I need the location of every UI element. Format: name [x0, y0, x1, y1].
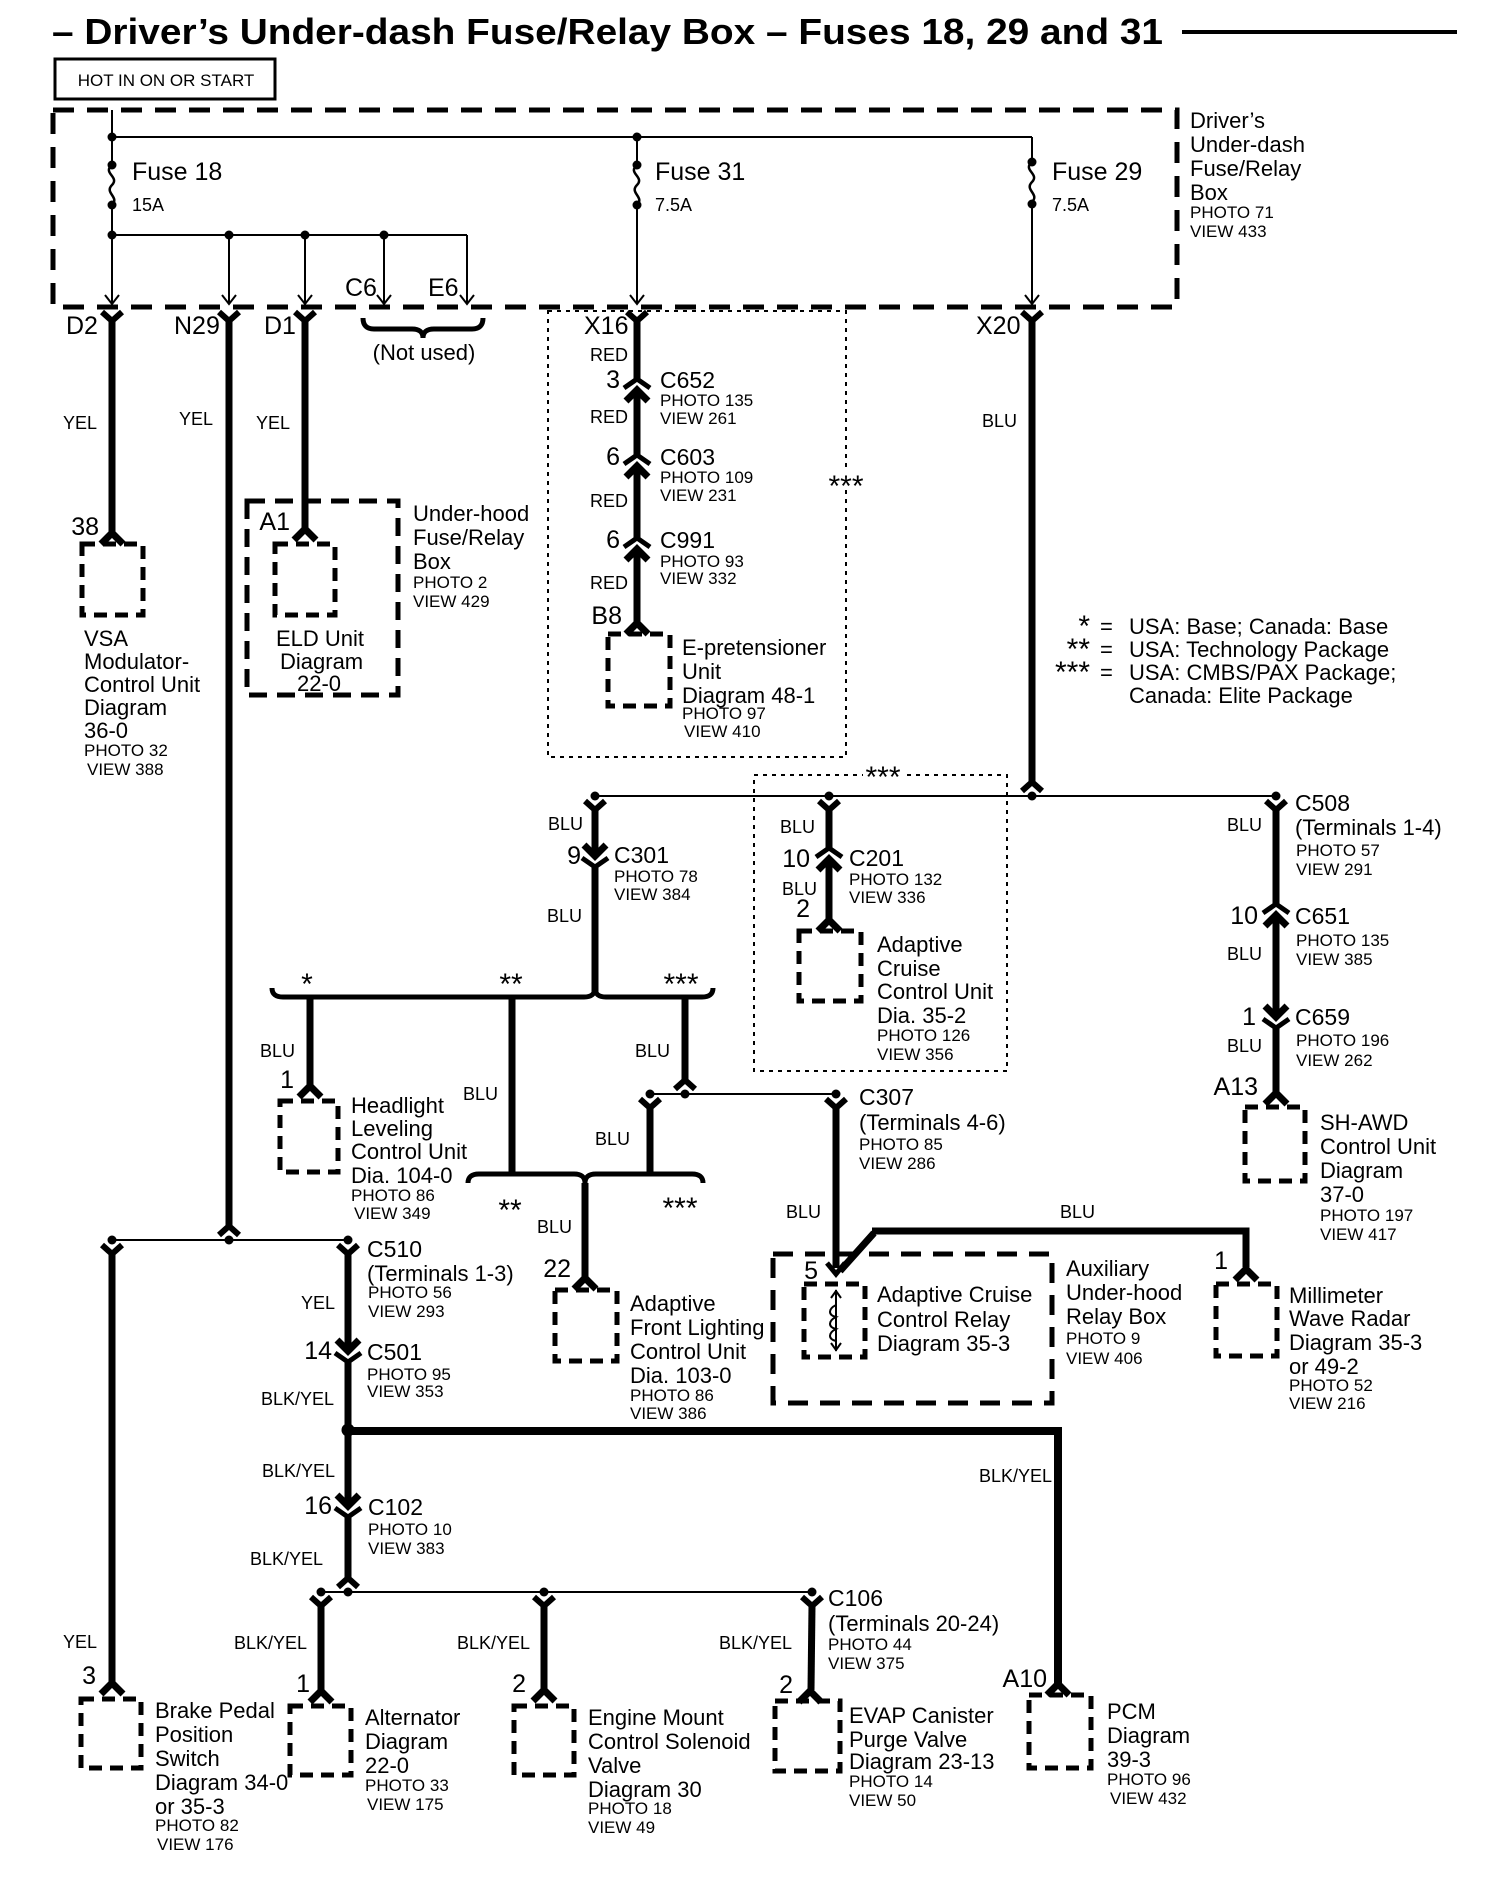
- svg-text:=: =: [1100, 660, 1113, 685]
- svg-text:PHOTO 14: PHOTO 14: [849, 1772, 933, 1791]
- wire: RED segment 3: [634, 466, 641, 538]
- svg-text:USA: CMBS/PAX Package;: USA: CMBS/PAX Package;: [1129, 660, 1396, 685]
- wire: RED segment 2: [634, 390, 641, 455]
- wire: BLU CMBS branch: [682, 997, 689, 1080]
- svg-text:EVAP Canister: EVAP Canister: [849, 1703, 994, 1728]
- label *** on option box edge: [863, 766, 903, 784]
- svg-text:2: 2: [779, 1671, 793, 1699]
- wire: RED segment 4: [634, 549, 641, 622]
- svg-text:Modulator-: Modulator-: [84, 649, 189, 674]
- svg-text:Relay Box: Relay Box: [1066, 1304, 1166, 1329]
- svg-text:VIEW 385: VIEW 385: [1296, 950, 1373, 969]
- svg-text:HOT IN ON OR START: HOT IN ON OR START: [78, 71, 255, 90]
- svg-text:A10: A10: [1003, 1665, 1047, 1693]
- wire: main BLU bus y=796: [595, 795, 1276, 797]
- svg-text:Under-hood: Under-hood: [1066, 1280, 1182, 1305]
- svg-text:***: ***: [662, 1192, 697, 1225]
- Under-hood Fuse/Relay Box (dashed outer): [247, 501, 398, 695]
- E-pretensioner Unit box: [608, 634, 670, 706]
- svg-text:PHOTO 44: PHOTO 44: [828, 1635, 912, 1654]
- Adaptive Cruise Control Relay box: [804, 1284, 865, 1357]
- svg-text:Under-dash: Under-dash: [1190, 132, 1305, 157]
- svg-text:Diagram: Diagram: [1320, 1158, 1403, 1183]
- connector C501: [335, 1340, 361, 1362]
- svg-text:PHOTO 96: PHOTO 96: [1107, 1770, 1191, 1789]
- svg-text:PHOTO 82: PHOTO 82: [155, 1816, 239, 1835]
- svg-text:A1: A1: [259, 508, 290, 536]
- svg-text:VIEW 175: VIEW 175: [367, 1795, 444, 1814]
- svg-text:PHOTO 135: PHOTO 135: [1296, 931, 1389, 950]
- svg-text:BLK/YEL: BLK/YEL: [261, 1389, 334, 1409]
- svg-text:YEL: YEL: [179, 409, 213, 429]
- svg-text:C508: C508: [1295, 790, 1350, 816]
- svg-text:Fuse/Relay: Fuse/Relay: [1190, 156, 1301, 181]
- svg-text:BLU: BLU: [260, 1041, 295, 1061]
- connector: radar terminal: [1235, 1269, 1257, 1280]
- svg-text:22-0: 22-0: [365, 1753, 409, 1778]
- svg-text:Diagram 35-3: Diagram 35-3: [877, 1331, 1010, 1356]
- node: junction at fuse 18 feed: [108, 133, 117, 142]
- svg-text:VIEW 336: VIEW 336: [849, 888, 926, 907]
- connector: alternator terminal: [310, 1691, 332, 1702]
- svg-text:Control Relay: Control Relay: [877, 1307, 1010, 1332]
- connector: SH-AWD terminal: [1265, 1093, 1287, 1104]
- svg-text:Control Solenoid: Control Solenoid: [588, 1729, 751, 1754]
- dotted option box: C201/ACC region: [754, 775, 1007, 1071]
- svg-text:X20: X20: [976, 312, 1020, 340]
- PCM box: [1029, 1695, 1091, 1768]
- connector: N29 socket: [219, 312, 239, 321]
- svg-text:Brake Pedal: Brake Pedal: [155, 1698, 275, 1723]
- svg-text:PHOTO 2: PHOTO 2: [413, 573, 487, 592]
- svg-text:PCM: PCM: [1107, 1699, 1156, 1724]
- wire: YEL to brake pedal switch: [109, 1254, 116, 1682]
- wire: BLU to AFL unit: [582, 1183, 589, 1278]
- svg-text:Diagram: Diagram: [84, 695, 167, 720]
- connector: X16 socket: [627, 312, 647, 321]
- svg-text:7.5A: 7.5A: [655, 195, 692, 215]
- svg-text:VSA: VSA: [84, 626, 128, 651]
- Adaptive Cruise Control Unit box: [799, 931, 861, 1001]
- wire: BLU technology branch: [509, 997, 516, 1173]
- svg-text:D2: D2: [66, 312, 98, 340]
- svg-text:YEL: YEL: [256, 413, 290, 433]
- svg-text:(Terminals 4-6): (Terminals 4-6): [859, 1110, 1006, 1135]
- HOT IN ON OR START label box: [55, 59, 275, 99]
- svg-text:RED: RED: [590, 407, 628, 427]
- wire: BLK/YEL C102 down: [345, 1517, 352, 1578]
- wire: drop to E6 with arrow: [466, 235, 468, 303]
- svg-text:BLU: BLU: [780, 817, 815, 837]
- svg-text:BLK/YEL: BLK/YEL: [234, 1633, 307, 1653]
- svg-text:VIEW 433: VIEW 433: [1190, 222, 1267, 241]
- svg-text:VIEW 332: VIEW 332: [660, 569, 737, 588]
- svg-text:=: =: [1100, 614, 1113, 639]
- svg-text:C201: C201: [849, 845, 904, 871]
- svg-text:PHOTO 86: PHOTO 86: [630, 1386, 714, 1405]
- wire: BLU radar run y=1231: [840, 1231, 1246, 1271]
- label *** on option box edge: [826, 470, 866, 490]
- svg-text:3: 3: [82, 1662, 96, 1690]
- svg-text:VIEW 176: VIEW 176: [157, 1835, 234, 1854]
- svg-text:PHOTO 126: PHOTO 126: [877, 1026, 970, 1045]
- dotted option box: CMBS/PAX package region: [548, 311, 846, 757]
- svg-text:Cruise: Cruise: [877, 956, 941, 981]
- svg-text:16: 16: [304, 1492, 332, 1520]
- svg-text:Diagram: Diagram: [365, 1729, 448, 1754]
- wire: N29 YEL long drop: [226, 320, 233, 1226]
- svg-text:VIEW 50: VIEW 50: [849, 1791, 916, 1810]
- wire: BLK/YEL run to PCM: [348, 1431, 1058, 1683]
- connector C307 fork: [826, 1099, 846, 1108]
- wire: D1 YEL to ELD: [302, 320, 309, 528]
- svg-text:PHOTO 32: PHOTO 32: [84, 741, 168, 760]
- svg-text:C301: C301: [614, 842, 669, 868]
- svg-text:BLU: BLU: [1227, 1036, 1262, 1056]
- svg-text:Dia. 35-2: Dia. 35-2: [877, 1003, 966, 1028]
- svg-text:1: 1: [296, 1670, 310, 1698]
- svg-text:PHOTO 132: PHOTO 132: [849, 870, 942, 889]
- Engine Mount Control Solenoid Valve box: [514, 1706, 574, 1775]
- svg-text:B8: B8: [591, 602, 622, 630]
- svg-text:Switch: Switch: [155, 1746, 220, 1771]
- connector: C102 end fork: [338, 1578, 358, 1587]
- connector: E-pretensioner terminal: [626, 623, 648, 634]
- svg-text:2: 2: [796, 895, 810, 923]
- svg-text:PHOTO 85: PHOTO 85: [859, 1135, 943, 1154]
- svg-text:Control Unit: Control Unit: [84, 672, 200, 697]
- svg-text:BLK/YEL: BLK/YEL: [979, 1466, 1052, 1486]
- svg-text:Engine Mount: Engine Mount: [588, 1705, 724, 1730]
- connector: X20 end fork: [1022, 782, 1042, 791]
- svg-text:Diagram 34-0: Diagram 34-0: [155, 1770, 288, 1795]
- svg-text:Control Unit: Control Unit: [1320, 1134, 1436, 1159]
- svg-text:3: 3: [606, 366, 620, 394]
- svg-text:PHOTO 56: PHOTO 56: [368, 1283, 452, 1302]
- svg-text:39-3: 39-3: [1107, 1747, 1151, 1772]
- svg-text:C106: C106: [828, 1585, 883, 1611]
- svg-text:BLU: BLU: [1227, 815, 1262, 835]
- svg-text:VIEW 388: VIEW 388: [87, 760, 164, 779]
- fuse F31 7.5A: [636, 137, 638, 164]
- svg-text:BLK/YEL: BLK/YEL: [457, 1633, 530, 1653]
- wire: C510 link bus y=1240: [112, 1239, 348, 1241]
- svg-text:BLU: BLU: [548, 814, 583, 834]
- svg-text:C651: C651: [1295, 903, 1350, 929]
- wire: drop to C6 with arrow: [383, 235, 385, 303]
- wire: YEL to C501: [345, 1254, 352, 1351]
- connector C651: [1263, 904, 1289, 926]
- svg-text:– Driver’s Under-dash Fuse/Rel: – Driver’s Under-dash Fuse/Relay Box – F…: [52, 11, 1163, 52]
- connector C201: [816, 848, 842, 870]
- svg-text:Dia. 104-0: Dia. 104-0: [351, 1163, 453, 1188]
- svg-text:C102: C102: [368, 1494, 423, 1520]
- svg-text:PHOTO 197: PHOTO 197: [1320, 1206, 1413, 1225]
- svg-text:BLU: BLU: [547, 906, 582, 926]
- connector: CMBS branch end fork: [675, 1080, 695, 1089]
- svg-text:VIEW 353: VIEW 353: [367, 1382, 444, 1401]
- connector: ACC terminal: [818, 920, 840, 931]
- node: junctions y=1094: [646, 1090, 655, 1099]
- Millimeter Wave Radar box: [1216, 1284, 1277, 1356]
- svg-text:14: 14: [304, 1337, 332, 1365]
- svg-text:D1: D1: [264, 312, 296, 340]
- connector: N29 end fork: [219, 1226, 239, 1235]
- svg-text:Box: Box: [1190, 180, 1228, 205]
- node: junctions on y=235 bus: [108, 231, 117, 240]
- svg-text:Position: Position: [155, 1722, 233, 1747]
- wire: drop to X16 with arrow: [636, 205, 638, 303]
- svg-text:VIEW 262: VIEW 262: [1296, 1051, 1373, 1070]
- svg-text:RED: RED: [590, 573, 628, 593]
- svg-text:RED: RED: [590, 345, 628, 365]
- connector: fork to AFL brace: [640, 1099, 660, 1108]
- connector: C301 branch fork: [585, 801, 605, 810]
- wire: BLU from C301 to brace: [592, 867, 599, 994]
- svg-text:X16: X16: [584, 312, 628, 340]
- svg-text:N29: N29: [174, 312, 220, 340]
- svg-text:Wave Radar: Wave Radar: [1289, 1306, 1410, 1331]
- svg-text:1: 1: [280, 1066, 294, 1094]
- wire: BLU to C301: [592, 810, 599, 856]
- svg-text:ELD Unit: ELD Unit: [276, 626, 364, 651]
- connector C508 fork: [1266, 801, 1286, 810]
- connector C301: [582, 845, 608, 867]
- svg-text:Leveling: Leveling: [351, 1116, 433, 1141]
- svg-text:BLU: BLU: [982, 411, 1017, 431]
- svg-text:VIEW 417: VIEW 417: [1320, 1225, 1397, 1244]
- svg-text:VIEW 216: VIEW 216: [1289, 1394, 1366, 1413]
- svg-text:C501: C501: [367, 1339, 422, 1365]
- svg-text:Dia. 103-0: Dia. 103-0: [630, 1363, 732, 1388]
- brace: trim split (*,**,***): [272, 988, 713, 997]
- svg-text:VIEW 231: VIEW 231: [660, 486, 737, 505]
- connector: brake branch fork: [102, 1245, 122, 1254]
- svg-text:15A: 15A: [132, 195, 164, 215]
- connector C659: [1263, 1006, 1289, 1028]
- svg-text:(Not used): (Not used): [373, 340, 476, 365]
- Driver's Under-dash Fuse/Relay Box (dashed enclosure): [53, 110, 1177, 307]
- svg-text:C510: C510: [367, 1236, 422, 1262]
- wire: BLK/YEL C501 to junction: [345, 1362, 352, 1430]
- connector: EVAP terminal: [799, 1691, 821, 1702]
- svg-text:A13: A13: [1214, 1073, 1258, 1101]
- svg-text:PHOTO 109: PHOTO 109: [660, 468, 753, 487]
- svg-text:VIEW 383: VIEW 383: [368, 1539, 445, 1558]
- wire: drop to X20 with arrow: [1031, 204, 1033, 303]
- svg-text:Adaptive: Adaptive: [877, 932, 963, 957]
- fuse F29 7.5A: [1031, 137, 1033, 161]
- svg-text:Fuse 18: Fuse 18: [132, 158, 222, 186]
- wire: feed drop to fuse 18: [111, 110, 113, 164]
- svg-text:Adaptive: Adaptive: [630, 1291, 716, 1316]
- svg-text:PHOTO 196: PHOTO 196: [1296, 1031, 1389, 1050]
- svg-text:BLU: BLU: [635, 1041, 670, 1061]
- wire: BLK/YEL to engine mount valve: [541, 1606, 548, 1689]
- svg-text:***: ***: [1055, 656, 1090, 689]
- svg-text:Auxiliary: Auxiliary: [1066, 1256, 1149, 1281]
- SH-AWD Control Unit box: [1245, 1107, 1305, 1181]
- svg-text:PHOTO 52: PHOTO 52: [1289, 1376, 1373, 1395]
- svg-text:BLK/YEL: BLK/YEL: [719, 1633, 792, 1653]
- connector C102: [335, 1495, 361, 1517]
- connector: brake pedal terminal: [101, 1683, 123, 1694]
- wire: BLK/YEL junction to C102: [345, 1430, 352, 1506]
- connector: VSA terminal: [101, 533, 123, 544]
- svg-text:***: ***: [865, 761, 900, 794]
- svg-text:SH-AWD: SH-AWD: [1320, 1110, 1408, 1135]
- svg-text:Fuse/Relay: Fuse/Relay: [413, 525, 524, 550]
- svg-text:PHOTO 10: PHOTO 10: [368, 1520, 452, 1539]
- svg-text:Adaptive Cruise: Adaptive Cruise: [877, 1282, 1032, 1307]
- fuse F18 15A: [108, 161, 117, 170]
- title rule: [1182, 30, 1457, 34]
- wire: X16 RED segment 1: [634, 320, 641, 379]
- svg-text:***: ***: [663, 968, 698, 1001]
- svg-text:PHOTO 78: PHOTO 78: [614, 867, 698, 886]
- svg-text:(Terminals 20-24): (Terminals 20-24): [828, 1611, 999, 1636]
- svg-text:Control Unit: Control Unit: [351, 1139, 467, 1164]
- svg-text:BLU: BLU: [1060, 1202, 1095, 1222]
- node: main BLK/YEL junction: [342, 1424, 355, 1437]
- svg-text:=: =: [1100, 637, 1113, 662]
- svg-text:2: 2: [512, 1670, 526, 1698]
- connector: EVAP branch fork: [802, 1597, 822, 1606]
- svg-text:Valve: Valve: [588, 1753, 641, 1778]
- svg-text:C659: C659: [1295, 1004, 1350, 1030]
- svg-text:BLU: BLU: [463, 1084, 498, 1104]
- wire: link bus y=1094: [650, 1093, 836, 1095]
- wire: BLU down to brace2: [647, 1108, 654, 1173]
- svg-text:VIEW 375: VIEW 375: [828, 1654, 905, 1673]
- svg-text:YEL: YEL: [63, 1632, 97, 1652]
- connector: PCM terminal: [1047, 1684, 1069, 1695]
- svg-text:7.5A: 7.5A: [1052, 195, 1089, 215]
- wire: BLU C201 to ACC: [826, 859, 833, 919]
- svg-text:PHOTO 18: PHOTO 18: [588, 1799, 672, 1818]
- svg-text:Millimeter: Millimeter: [1289, 1283, 1383, 1308]
- VSA Modulator-Control Unit box: [82, 544, 143, 615]
- connector: relay pin 5 arrow: [827, 1263, 845, 1274]
- svg-text:YEL: YEL: [63, 413, 97, 433]
- svg-text:*: *: [301, 968, 313, 1001]
- svg-text:10: 10: [782, 845, 810, 873]
- svg-text:VIEW 384: VIEW 384: [614, 885, 691, 904]
- svg-text:USA: Technology Package: USA: Technology Package: [1129, 637, 1389, 662]
- Headlight Leveling Control Unit box: [280, 1101, 338, 1172]
- svg-text:VIEW 293: VIEW 293: [368, 1302, 445, 1321]
- connector: D1 socket: [295, 312, 315, 321]
- svg-text:36-0: 36-0: [84, 718, 128, 743]
- svg-text:38: 38: [71, 513, 99, 541]
- svg-text:37-0: 37-0: [1320, 1182, 1364, 1207]
- brace: AFL merge (**,***): [468, 1174, 703, 1183]
- svg-text:E-pretensioner: E-pretensioner: [682, 635, 826, 660]
- brace: C6/E6 not used: [363, 318, 483, 338]
- connector: C201 branch fork: [819, 801, 839, 810]
- svg-text:C307: C307: [859, 1084, 914, 1110]
- wire: X20 BLU drop: [1029, 320, 1036, 782]
- wire: BLU C508 to C651: [1273, 810, 1280, 904]
- svg-text:USA: Base; Canada: Base: USA: Base; Canada: Base: [1129, 614, 1388, 639]
- wire: drop to N29 with arrow: [228, 235, 230, 303]
- svg-text:E6: E6: [428, 274, 459, 302]
- svg-text:Unit: Unit: [682, 659, 721, 684]
- wire: BLU C307 to relay: [833, 1108, 840, 1268]
- svg-text:YEL: YEL: [301, 1293, 335, 1313]
- node: junctions on y=796: [591, 792, 600, 801]
- wire: D2 YEL to VSA: [109, 320, 116, 532]
- connector: engine mount branch fork: [534, 1597, 554, 1606]
- svg-text:PHOTO 71: PHOTO 71: [1190, 203, 1274, 222]
- svg-text:VIEW 49: VIEW 49: [588, 1818, 655, 1837]
- connector C603: [624, 455, 650, 477]
- svg-text:BLU: BLU: [1227, 944, 1262, 964]
- svg-text:Diagram 35-3: Diagram 35-3: [1289, 1330, 1422, 1355]
- wire: fuse18 output bus y=235: [111, 205, 113, 236]
- svg-text:***: ***: [828, 470, 863, 503]
- connector: headlight terminal: [299, 1086, 321, 1097]
- svg-text:9: 9: [567, 842, 581, 870]
- svg-text:Fuse 29: Fuse 29: [1052, 158, 1142, 186]
- svg-text:(Terminals 1-4): (Terminals 1-4): [1295, 815, 1442, 840]
- connector C652: [624, 379, 650, 401]
- wire: bottom link bus y=1592: [321, 1591, 812, 1593]
- svg-text:C603: C603: [660, 444, 715, 470]
- svg-text:**: **: [499, 968, 523, 1001]
- svg-text:6: 6: [606, 443, 620, 471]
- svg-text:VIEW 356: VIEW 356: [877, 1045, 954, 1064]
- svg-text:BLK/YEL: BLK/YEL: [262, 1461, 335, 1481]
- svg-text:Alternator: Alternator: [365, 1705, 460, 1730]
- connector: X20 socket: [1022, 312, 1042, 321]
- svg-text:RED: RED: [590, 491, 628, 511]
- wire: BLU C651 to C659: [1273, 915, 1280, 1017]
- svg-text:VIEW 261: VIEW 261: [660, 409, 737, 428]
- connector: alternator branch fork: [311, 1597, 331, 1606]
- svg-text:1: 1: [1242, 1003, 1256, 1031]
- svg-text:C6: C6: [345, 274, 377, 302]
- svg-text:Canada: Elite Package: Canada: Elite Package: [1129, 683, 1353, 708]
- node: junctions y=1240: [108, 1236, 117, 1245]
- connector: C510 branch fork: [338, 1245, 358, 1254]
- svg-text:10: 10: [1230, 902, 1258, 930]
- svg-text:VIEW 291: VIEW 291: [1296, 860, 1373, 879]
- svg-text:PHOTO 97: PHOTO 97: [682, 704, 766, 723]
- svg-text:BLU: BLU: [786, 1202, 821, 1222]
- svg-text:BLU: BLU: [595, 1129, 630, 1149]
- wire: drop to D1 with arrow: [304, 235, 306, 303]
- Brake Pedal Position Switch box: [81, 1699, 141, 1768]
- svg-text:PHOTO 33: PHOTO 33: [365, 1776, 449, 1795]
- Alternator box: [290, 1706, 351, 1775]
- node: junctions y=1592: [317, 1588, 326, 1597]
- Auxiliary Under-hood Relay Box (dashed): [773, 1254, 1052, 1403]
- svg-text:VIEW 410: VIEW 410: [684, 722, 761, 741]
- svg-text:PHOTO 9: PHOTO 9: [1066, 1329, 1140, 1348]
- svg-text:Under-hood: Under-hood: [413, 501, 529, 526]
- svg-text:BLU: BLU: [537, 1217, 572, 1237]
- svg-text:6: 6: [606, 526, 620, 554]
- Adaptive Front Lighting Control Unit box: [555, 1290, 617, 1361]
- relay coil symbol: [835, 1290, 837, 1351]
- svg-text:22: 22: [543, 1255, 571, 1283]
- svg-text:VIEW 432: VIEW 432: [1110, 1789, 1187, 1808]
- svg-text:VIEW 429: VIEW 429: [413, 592, 490, 611]
- svg-text:VIEW 386: VIEW 386: [630, 1404, 707, 1423]
- svg-text:PHOTO 57: PHOTO 57: [1296, 841, 1380, 860]
- svg-text:VIEW 349: VIEW 349: [354, 1204, 431, 1223]
